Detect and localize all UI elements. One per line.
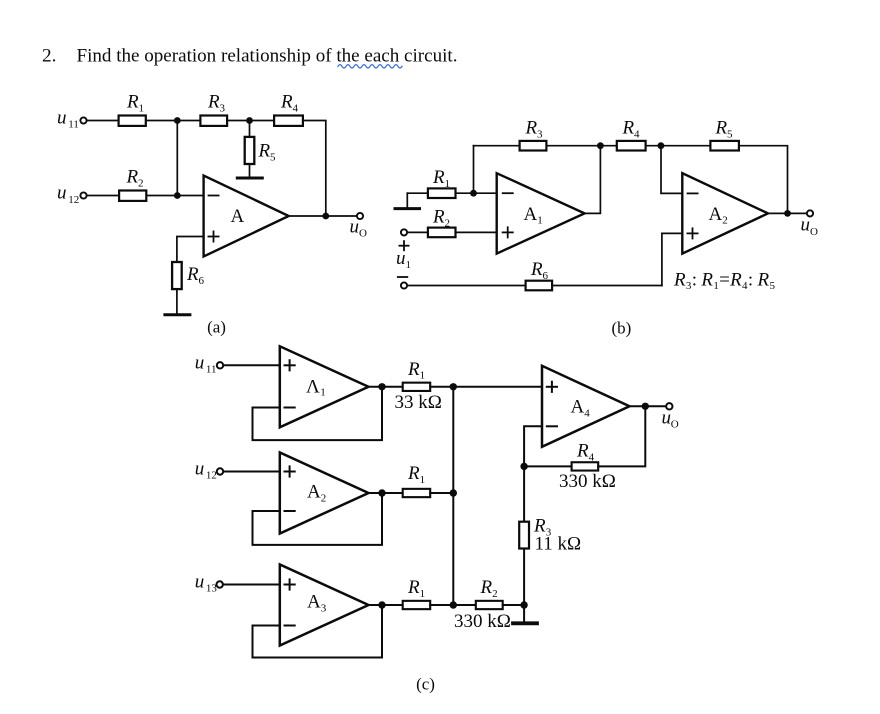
node ground junction (c) [520, 601, 527, 608]
label uO (c) [662, 407, 679, 430]
wire R4 to feedback corner [303, 121, 326, 217]
node A4 output (c) [642, 403, 649, 410]
label uO (b) [801, 215, 819, 238]
wire R2 to ground node (c) [503, 604, 524, 606]
node A1 output feedback (b) [597, 142, 604, 149]
svg-text:4: 4 [589, 452, 595, 464]
wire u1 minus to R6 (b) [408, 285, 526, 287]
minus sign input A [209, 195, 219, 197]
terminal uI2 [80, 192, 86, 198]
svg-text:u: u [195, 459, 205, 480]
svg-text:u: u [662, 407, 672, 428]
op-amp A1 [497, 173, 585, 253]
ground under R6 [165, 313, 190, 316]
minus sign source (b) [398, 276, 408, 278]
wire R4 to R5 (b) [646, 145, 711, 147]
label uI2 [57, 183, 79, 206]
wire uI1 to R1 [87, 120, 119, 122]
wire uI1 to amp1 (c) [224, 364, 280, 366]
op-amp A [204, 176, 289, 257]
svg-text:R: R [280, 92, 293, 113]
svg-text:6: 6 [543, 270, 549, 282]
node bus row2 (c) [450, 489, 457, 496]
op-amp A3 (c) [280, 565, 369, 646]
terminal uI3 (c) [217, 581, 223, 587]
node output (a) [322, 213, 329, 220]
ground stub left (b) [406, 193, 408, 207]
svg-text:u: u [350, 217, 360, 238]
resistor R2 (c) [476, 601, 503, 609]
terminal uO (a) [357, 213, 363, 219]
svg-text:R: R [480, 577, 493, 598]
node output (b) [784, 210, 791, 217]
op-amp A1 (c) [280, 346, 369, 427]
svg-text:O: O [810, 226, 818, 238]
svg-text:Λ: Λ [306, 376, 320, 397]
node A2 inverting feedback (b) [658, 142, 665, 149]
svg-text:5: 5 [270, 152, 276, 164]
wire op-amp output (a) [289, 215, 357, 217]
svg-text:Find the operation relationshi: Find the operation relationship of the e… [77, 46, 458, 67]
svg-text:12: 12 [68, 194, 79, 206]
svg-text:1: 1 [406, 259, 412, 271]
spellcheck wavy underline [338, 65, 402, 68]
svg-text:R: R [407, 577, 420, 598]
plus sign source (b) [399, 241, 408, 250]
feedback loop amp2 (c) [253, 493, 383, 545]
value 330k R2 (c) [454, 611, 511, 632]
node amp2 output (c) [378, 489, 385, 496]
wire R1 to bus row3 (c) [430, 604, 476, 606]
minus sign amp2 (c) [285, 510, 295, 512]
op-amp A2 [682, 173, 768, 253]
op-amp A4 (c) [542, 366, 630, 447]
svg-text:R: R [207, 92, 220, 113]
wire non-inverting input to R6 [177, 237, 204, 263]
svg-text:330 kΩ: 330 kΩ [559, 471, 616, 492]
wire R3 to R4 (b) [546, 145, 616, 147]
svg-text:A: A [307, 482, 321, 503]
plus sign A4 (c) [547, 382, 557, 392]
resistor R5 (a) vertical [245, 137, 255, 164]
wire R4 left (c) [524, 465, 572, 467]
wire R5 to right corner down to output (b) [739, 146, 788, 214]
wire vertical node to top row (b) [473, 146, 475, 194]
svg-text:4: 4 [634, 129, 640, 141]
svg-text:13: 13 [206, 583, 218, 595]
svg-text:33 kΩ: 33 kΩ [395, 392, 442, 413]
wire R1 to bus row2 (c) [430, 492, 453, 494]
svg-text:11 kΩ: 11 kΩ [535, 534, 582, 555]
resistor R4 (a) [274, 116, 303, 126]
node junction second row (a) [174, 192, 181, 199]
wire R3 upper vertical (c) [523, 466, 525, 521]
wire R1 to A1 inverting (b) [456, 192, 497, 194]
label uO (a) [350, 217, 368, 240]
op-amp A2 (c) [280, 453, 369, 534]
resistor R6 (b) [526, 281, 553, 291]
feedback loop amp1 (c) [253, 387, 383, 440]
svg-text:1: 1 [420, 588, 426, 600]
wire R3 to R4 [227, 120, 274, 122]
label uI3 (c) [195, 572, 218, 595]
svg-text:A: A [231, 206, 245, 227]
svg-text:R: R [432, 207, 445, 228]
svg-text:u: u [57, 183, 67, 204]
svg-text:4: 4 [584, 407, 590, 419]
terminal u1 plus (b) [401, 229, 407, 235]
plus sign amp1 (c) [285, 360, 295, 370]
plus sign input A1 [503, 227, 513, 237]
svg-text:1: 1 [537, 215, 543, 227]
ground (b) [395, 207, 420, 210]
relation label R3:R1=R4:R5 [673, 269, 775, 292]
terminal uO (c) [666, 403, 672, 409]
svg-text:R: R [530, 259, 543, 280]
svg-text:R: R [126, 92, 139, 113]
ground stub (c) [523, 605, 525, 622]
node R3-R5 junction (a) [246, 117, 253, 124]
resistor R6 (a) vertical [172, 262, 182, 289]
resistor R2 (a) [119, 191, 146, 201]
value 11k R3 (c) [535, 534, 582, 555]
svg-text:R: R [258, 141, 271, 162]
svg-text:A: A [307, 592, 321, 613]
wire A2 output (b) [768, 212, 806, 214]
svg-text:u: u [396, 248, 406, 269]
caption (c) [416, 675, 435, 694]
wire R6 to A2 corner (b) [552, 285, 662, 287]
wire R3 lower vertical (c) [523, 547, 525, 605]
wire R4 right up to output (c) [598, 406, 645, 466]
svg-text:4: 4 [293, 103, 299, 115]
wire A2 non-inverting down to R6 row (b) [662, 233, 682, 285]
svg-text:R: R [622, 118, 635, 139]
svg-text:u: u [195, 353, 205, 374]
node R3-R4 junction (c) [520, 463, 527, 470]
label uI1 [57, 108, 79, 131]
svg-text:3: 3 [537, 129, 543, 141]
svg-text:6: 6 [199, 275, 205, 287]
wire vertical joining rows (a) [176, 121, 178, 196]
svg-text:(c): (c) [416, 675, 435, 694]
resistor R1 row3 (c) [403, 601, 431, 609]
wire bus to A4 plus (c) [453, 386, 542, 388]
svg-text:R: R [432, 167, 445, 188]
resistor R1 (b) [428, 188, 456, 198]
svg-text:330 kΩ: 330 kΩ [454, 611, 511, 632]
svg-text:(b): (b) [611, 319, 631, 338]
wire R1 to R3 [146, 120, 200, 122]
svg-text:R: R [126, 167, 139, 188]
resistor R1 row1 (c) [403, 383, 431, 391]
svg-text:A: A [524, 204, 538, 225]
wire A1 output up to top row (b) [585, 146, 601, 214]
svg-text:1: 1 [445, 178, 451, 190]
wire A4 output (c) [630, 405, 666, 407]
svg-text:A: A [571, 397, 585, 418]
svg-text:R: R [407, 463, 420, 484]
svg-text:R: R [715, 118, 728, 139]
minus sign input A1 [503, 192, 513, 194]
svg-text:A: A [709, 204, 723, 225]
title text [42, 46, 458, 67]
resistor R3 (b) [520, 141, 547, 151]
svg-text:11: 11 [206, 364, 217, 376]
wire top feedback row (b) [474, 145, 520, 147]
wire uI2 to amp2 (c) [224, 471, 280, 473]
terminal uO (b) [807, 210, 813, 216]
label uI1 (c) [195, 353, 217, 376]
resistor R5 (b) [710, 141, 739, 151]
svg-text:R: R [576, 441, 589, 462]
node junction top-left (a) [174, 117, 181, 124]
plus sign amp2 (c) [285, 466, 295, 476]
terminal u1 minus (b) [401, 282, 407, 288]
caption (a) [207, 318, 226, 337]
wire R1 to bus row1 (c) [430, 386, 453, 388]
terminal uI2 (c) [217, 468, 223, 474]
wire ground to R1 (b) [407, 192, 428, 194]
svg-text:1: 1 [420, 474, 426, 486]
wire amp3 output to R1 (c) [369, 604, 403, 606]
svg-text:2.: 2. [42, 46, 56, 67]
minus sign A4 (c) [547, 425, 557, 427]
node amp3 output (c) [378, 601, 385, 608]
plus sign input A [208, 231, 218, 241]
wire amp1 output to R1 (c) [369, 386, 403, 388]
wire A2 inverting to top node (b) [661, 146, 682, 194]
svg-text:5: 5 [727, 129, 733, 141]
svg-text:1: 1 [320, 387, 326, 399]
wire R2 to op-amp inverting input [146, 195, 203, 197]
minus sign amp1 (c) [285, 407, 295, 409]
svg-text:2: 2 [138, 178, 144, 190]
node amp1 output (c) [378, 383, 385, 390]
svg-text:R: R [186, 264, 199, 285]
svg-text:3: 3 [220, 103, 226, 115]
svg-text:u: u [801, 215, 811, 236]
terminal uI1 (c) [217, 362, 223, 368]
wire uI3 to amp3 (c) [223, 584, 279, 586]
plus sign input A2 [687, 228, 697, 238]
svg-text:1: 1 [139, 103, 145, 115]
minus sign input A2 [688, 192, 698, 194]
resistor R3 (a) [200, 116, 227, 126]
svg-text:R: R [525, 118, 538, 139]
wire R2 to A1 non-inverting (b) [456, 231, 497, 233]
label uI2 (c) [195, 459, 217, 482]
wire node to R5 [249, 121, 251, 137]
ground under R5 [237, 177, 262, 180]
resistor R4 (c) [572, 462, 599, 470]
svg-text:O: O [359, 228, 367, 240]
svg-text:2: 2 [722, 215, 728, 227]
ground (c) [513, 621, 537, 625]
wire R6 to ground [176, 289, 178, 313]
value 330k R4 (c) [559, 471, 616, 492]
resistor R1 row2 (c) [403, 489, 431, 497]
svg-text:1: 1 [420, 370, 426, 382]
resistor R4 (b) [617, 141, 646, 151]
feedback loop amp3 (c) [253, 605, 383, 658]
svg-text:u: u [195, 572, 205, 593]
terminal uI1 [80, 117, 86, 123]
node bus row1 (c) [450, 383, 457, 390]
plus sign amp3 (c) [285, 579, 295, 589]
label u1 (b) [396, 248, 411, 271]
svg-text:12: 12 [206, 470, 217, 482]
minus sign amp3 (c) [285, 625, 295, 627]
value 33k row1 (c) [395, 392, 442, 413]
wire uI2 to R2 [87, 195, 119, 197]
svg-text:(a): (a) [207, 318, 226, 337]
svg-text:u: u [57, 108, 67, 129]
resistor R1 (a) [119, 116, 146, 126]
svg-text:R: R [407, 359, 420, 380]
svg-text:2: 2 [445, 218, 451, 230]
svg-text:11: 11 [68, 119, 79, 131]
wire u1 to R2 (b) [408, 231, 428, 233]
wire bus vertical (c) [452, 387, 454, 605]
node inverting junction (b) [470, 190, 477, 197]
svg-text:2: 2 [492, 588, 498, 600]
svg-text:O: O [671, 419, 679, 431]
wire A4 inverting down (c) [524, 426, 542, 466]
svg-text:3: 3 [321, 602, 327, 614]
caption (b) [611, 319, 631, 338]
wire R5 to ground [249, 164, 251, 176]
node bus row3 (c) [450, 601, 457, 608]
svg-text:2: 2 [321, 493, 327, 505]
resistor R2 (b) [428, 228, 456, 238]
resistor R3 (c) vertical [519, 522, 529, 549]
wire amp2 output to R1 (c) [369, 492, 403, 494]
